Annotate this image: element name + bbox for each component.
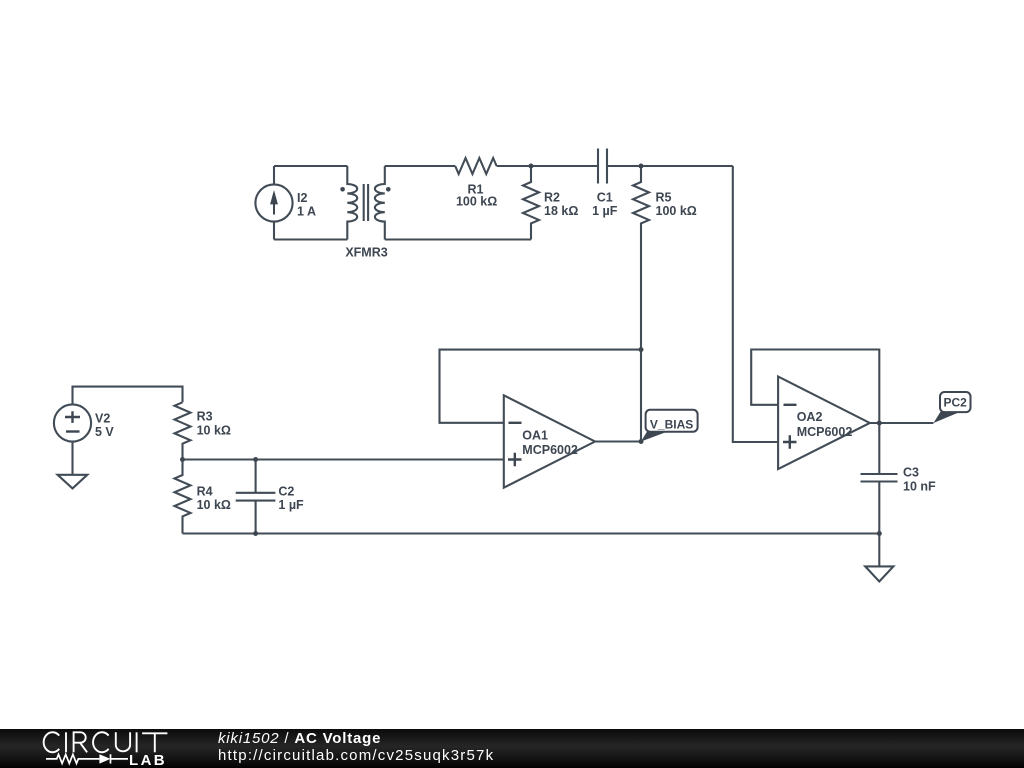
T bbox=[142, 733, 167, 752]
wire top of source box bbox=[274, 165, 347, 167]
wire R1 to C1 bbox=[497, 165, 598, 167]
svg-text:PC2: PC2 bbox=[944, 396, 968, 410]
svg-text:C2: C2 bbox=[278, 485, 294, 499]
resistor R3 bbox=[175, 402, 191, 459]
op-amp OA2 bbox=[778, 377, 870, 470]
I bbox=[136, 732, 138, 752]
node C1-R5 bbox=[639, 164, 644, 169]
node R5-feedback bbox=[639, 347, 644, 352]
node OA1 output V_BIAS bbox=[639, 439, 644, 444]
op-amp OA1 bbox=[504, 395, 595, 487]
svg-text:R4: R4 bbox=[197, 485, 213, 499]
plus sign in V2 bbox=[65, 405, 797, 466]
svg-text:18 kΩ: 18 kΩ bbox=[544, 204, 578, 218]
transformer XFMR3 secondary winding bbox=[375, 166, 385, 240]
svg-text:10 kΩ: 10 kΩ bbox=[197, 498, 231, 512]
wire bottom rail bbox=[183, 532, 880, 534]
svg-text:C1: C1 bbox=[597, 191, 613, 205]
svg-text:V_BIAS: V_BIAS bbox=[650, 418, 693, 432]
svg-text:OA2: OA2 bbox=[797, 410, 823, 424]
svg-text:1 µF: 1 µF bbox=[278, 498, 304, 512]
ground under V2 bbox=[58, 475, 88, 489]
svg-text:MCP6002: MCP6002 bbox=[522, 443, 578, 457]
wire OA2 output to PC2 bbox=[870, 422, 934, 424]
wire bottom of source box bbox=[274, 238, 347, 240]
capacitor C3 bbox=[861, 423, 898, 534]
minus sign in V2 bbox=[66, 430, 80, 432]
svg-text:1 µF: 1 µF bbox=[592, 204, 618, 218]
footer url bbox=[218, 747, 494, 764]
svg-text:1 A: 1 A bbox=[297, 205, 316, 219]
wire V2 top to R3 bbox=[73, 387, 183, 405]
wire secondary bottom to R2 bbox=[385, 238, 531, 240]
svg-text:C3: C3 bbox=[903, 466, 919, 480]
C bbox=[44, 732, 60, 752]
node R3-R4 bbox=[180, 457, 185, 462]
capacitor C2 bbox=[236, 460, 276, 534]
resistor R2 bbox=[523, 166, 539, 240]
wire node to top-right corner bbox=[641, 165, 733, 167]
minus sign OA1 bbox=[509, 422, 522, 424]
transformer dot secondary bbox=[386, 187, 391, 192]
capacitor C1 bbox=[598, 149, 607, 184]
svg-text:100 kΩ: 100 kΩ bbox=[656, 204, 697, 218]
logo CIRCUIT letters bbox=[44, 732, 168, 752]
wire C3 bottom to ground bbox=[878, 534, 880, 567]
footer bar bbox=[0, 729, 1024, 768]
transformer XFMR3 core bbox=[364, 184, 368, 221]
svg-text:I2: I2 bbox=[297, 191, 307, 205]
svg-text:V2: V2 bbox=[95, 411, 110, 425]
wire OA2 plus input bbox=[733, 441, 778, 443]
minus sign OA2 bbox=[784, 404, 797, 406]
resistor R1 bbox=[455, 158, 496, 174]
footer title bbox=[218, 730, 381, 747]
svg-text:R5: R5 bbox=[656, 191, 672, 205]
svg-text:MCP6002: MCP6002 bbox=[797, 425, 853, 439]
svg-text:OA1: OA1 bbox=[522, 429, 548, 443]
node C2 bottom bbox=[253, 531, 258, 536]
voltage source V2 bbox=[54, 404, 91, 441]
logo resistor-diode bbox=[46, 754, 128, 763]
transformer dot primary bbox=[340, 187, 345, 192]
flag V_BIAS bbox=[641, 410, 698, 442]
wire right vertical down to OA2 plus bbox=[733, 166, 778, 442]
svg-text:XFMR3: XFMR3 bbox=[345, 245, 387, 259]
node C2 top bbox=[253, 457, 258, 462]
resistor R4 bbox=[175, 460, 191, 534]
svg-text:100 kΩ: 100 kΩ bbox=[456, 194, 497, 208]
svg-text:R3: R3 bbox=[197, 410, 213, 424]
resistor R5 bbox=[633, 166, 649, 350]
svg-text:10 nF: 10 nF bbox=[903, 480, 936, 494]
wire OA2 feedback loop bbox=[751, 350, 879, 424]
R bbox=[74, 732, 88, 752]
wire secondary top to R1 bbox=[385, 165, 455, 167]
node R1-R2-C1 bbox=[529, 164, 534, 169]
svg-text:5 V: 5 V bbox=[95, 425, 114, 439]
wire OA1 plus input from divider bbox=[183, 458, 504, 460]
wire OA1 feedback loop bbox=[440, 350, 642, 423]
svg-text:R2: R2 bbox=[544, 191, 560, 205]
wire V2 to ground bbox=[71, 442, 73, 475]
wire OA1 output bbox=[595, 440, 641, 442]
wire I2 top lead bbox=[273, 166, 275, 184]
I bbox=[65, 732, 67, 752]
node C3 bottom bbox=[877, 531, 882, 536]
wire C1 to node bbox=[607, 165, 641, 167]
svg-text:10 kΩ: 10 kΩ bbox=[197, 424, 231, 438]
wire R5 bottom to OA1 output node bbox=[640, 350, 642, 442]
wire I2 bottom lead bbox=[273, 222, 275, 240]
plus sign OA1 bbox=[508, 453, 522, 466]
C bbox=[93, 732, 109, 752]
flag PC2 bbox=[934, 392, 971, 423]
U bbox=[116, 732, 130, 751]
current source I2 bbox=[255, 184, 292, 221]
arrow inside I2 bbox=[271, 192, 278, 215]
plus sign OA2 bbox=[783, 435, 797, 448]
node OA2 output bbox=[877, 421, 882, 426]
svg-text:LAB: LAB bbox=[129, 752, 167, 768]
transformer XFMR3 primary winding bbox=[347, 166, 357, 240]
ground right bbox=[865, 566, 893, 581]
